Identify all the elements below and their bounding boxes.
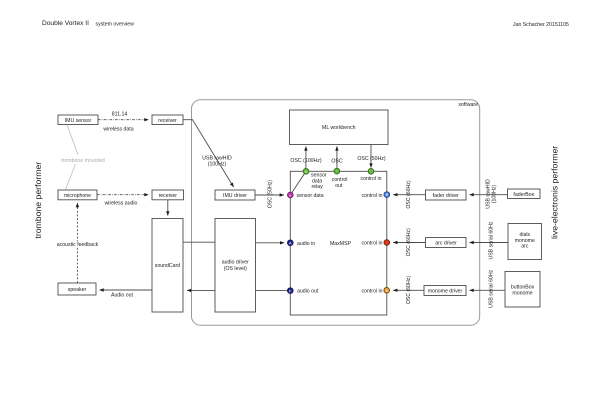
box receiver (mid) — [152, 190, 184, 200]
box dials monome arc — [508, 224, 542, 260]
svg-text:OSC (100Hz): OSC (100Hz) — [290, 158, 321, 164]
svg-text:audio driver: audio driver — [222, 260, 249, 266]
svg-text:Jan Schacher 20151105: Jan Schacher 20151105 — [513, 22, 569, 28]
port audio in (navy) — [288, 240, 316, 247]
software rounded rect — [192, 100, 480, 326]
wire dials monome arc to arc driver — [470, 221, 509, 259]
left rotated label trombone performer — [33, 162, 43, 239]
svg-text:b: b — [386, 289, 388, 293]
svg-text:microphone: microphone — [64, 193, 91, 199]
title — [42, 20, 89, 27]
svg-text:(OS level): (OS level) — [224, 266, 247, 272]
port audio out (navy) — [288, 288, 319, 295]
box arc driver — [426, 238, 467, 248]
svg-text:relay: relay — [312, 184, 324, 190]
port control out (green) — [332, 168, 348, 189]
box MaxMSP — [290, 171, 387, 315]
svg-text:audio in: audio in — [297, 241, 315, 247]
svg-text:A: A — [289, 242, 292, 246]
wire monome driver to control in — [393, 276, 424, 305]
svg-text:USB serial 60Hz: USB serial 60Hz — [489, 221, 495, 259]
svg-text:wireless data: wireless data — [103, 127, 133, 133]
svg-text:MaxMSP: MaxMSP — [330, 241, 352, 247]
box fader driver — [426, 190, 467, 200]
svg-text:OSC (60Hz): OSC (60Hz) — [406, 180, 412, 209]
wire receiver to soundCard — [167, 200, 169, 216]
svg-text:a: a — [305, 170, 307, 174]
port control in (green) — [360, 169, 381, 183]
box receiver (top) — [152, 115, 183, 125]
box faderBox — [508, 189, 541, 199]
svg-text:control in: control in — [361, 193, 382, 199]
svg-text:system overview: system overview — [96, 22, 135, 28]
port control in (blue) — [361, 192, 389, 199]
svg-text:speaker: speaker — [68, 287, 87, 293]
wire OSC 50Hz down from ML workbench — [357, 145, 386, 168]
svg-text:OSC (60Hz): OSC (60Hz) — [406, 276, 412, 305]
svg-text:OSC (50Hz): OSC (50Hz) — [268, 180, 274, 209]
wire OSC up to ML workbench — [331, 146, 342, 168]
svg-text:receiver: receiver — [158, 118, 177, 124]
svg-text:software: software — [458, 102, 478, 108]
port control in (orange) — [361, 288, 389, 295]
svg-text:(100Hz): (100Hz) — [208, 161, 227, 167]
wire audio driver to soundCard — [187, 289, 215, 291]
svg-text:monome: monome — [512, 291, 532, 297]
box buttonBox monome — [505, 272, 540, 308]
wire Audio out (soundCard to speaker) — [100, 290, 153, 299]
svg-text:OSC (50Hz): OSC (50Hz) — [357, 156, 386, 162]
svg-text:out: out — [335, 183, 343, 189]
svg-text:fader driver: fader driver — [433, 193, 460, 199]
node trombone mounted (gray) — [61, 125, 105, 190]
right rotated label live-electronis performer — [550, 146, 560, 239]
svg-text:live-electronis performer: live-electronis performer — [550, 146, 560, 239]
svg-text:trombone mounted: trombone mounted — [61, 158, 105, 164]
svg-text:soundCard: soundCard — [155, 263, 180, 269]
svg-text:acoustic feedback: acoustic feedback — [57, 242, 99, 248]
svg-text:control: control — [332, 177, 348, 183]
box IMU sensor — [58, 115, 98, 125]
box speaker — [58, 283, 96, 295]
wire OSC 50Hz (IMU driver to sensor data port) — [255, 180, 284, 209]
svg-text:trombone performer: trombone performer — [33, 162, 43, 239]
wire buttonBox monome to monome driver — [470, 269, 506, 307]
svg-text:control in: control in — [361, 288, 382, 294]
subtitle — [96, 22, 135, 28]
svg-text:IMU driver: IMU driver — [223, 193, 247, 199]
svg-text:arc: arc — [521, 244, 529, 250]
wire arc driver to control in — [393, 228, 425, 257]
box IMU driver — [215, 190, 255, 200]
svg-text:USB serial 60Hz: USB serial 60Hz — [488, 269, 494, 307]
svg-text:sensor data: sensor data — [297, 193, 324, 199]
wire wireless data (IMU sensor to receiver) — [98, 112, 149, 133]
svg-text:n: n — [289, 194, 291, 198]
wire soundCard to audio driver — [183, 241, 215, 243]
wire sensor data relay diagonal — [290, 171, 306, 195]
box microphone — [58, 190, 97, 200]
svg-text:(100Hz): (100Hz) — [492, 185, 498, 204]
credit — [513, 22, 569, 28]
box soundCard — [152, 219, 183, 313]
svg-text:monome driver: monome driver — [428, 289, 463, 295]
svg-text:arc driver: arc driver — [435, 241, 457, 247]
svg-text:control in: control in — [361, 241, 382, 247]
wire USB rawHID receiver to IMU driver — [183, 120, 234, 187]
svg-text:811.14: 811.14 — [112, 112, 128, 118]
port sensor data (magenta) — [288, 192, 324, 199]
box ML workbench — [290, 110, 389, 145]
wire wireless audio (microphone to receiver) — [97, 195, 149, 207]
svg-text:ML workbench: ML workbench — [322, 125, 356, 131]
svg-text:OSC: OSC — [331, 159, 342, 165]
svg-text:USB rawHID: USB rawHID — [202, 155, 232, 161]
port sensor data relay (green) — [303, 169, 327, 191]
wire acoustic feedback (speaker to microphone) — [56, 203, 99, 283]
wire OSC 100Hz up to ML workbench — [290, 146, 321, 168]
svg-text:Audio out: Audio out — [111, 293, 133, 299]
svg-text:OSC (60Hz): OSC (60Hz) — [406, 228, 412, 257]
wire audio driver to audio in port — [256, 242, 285, 244]
svg-text:faderBox: faderBox — [513, 192, 534, 198]
svg-text:audio out: audio out — [297, 289, 319, 295]
svg-text:IMU sensor: IMU sensor — [65, 118, 92, 124]
svg-text:receiver: receiver — [159, 193, 178, 199]
wire faderBox to fader driver — [470, 179, 508, 209]
svg-text:control in: control in — [360, 176, 381, 182]
wire audio out port to audio driver — [256, 290, 288, 292]
box monome driver — [424, 286, 466, 296]
wire fader driver to control in — [393, 180, 425, 209]
svg-text:wireless audio: wireless audio — [105, 200, 138, 206]
svg-text:Double Vortex II: Double Vortex II — [42, 20, 89, 27]
box audio driver — [215, 219, 256, 313]
port control in (red) — [361, 240, 389, 247]
